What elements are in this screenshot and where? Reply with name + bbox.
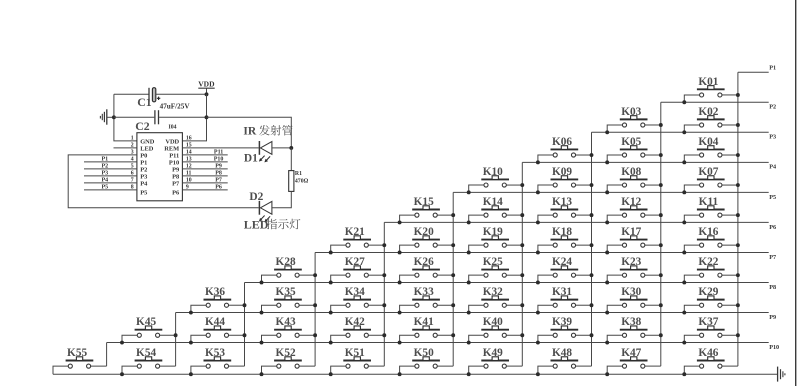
wire: [299, 365, 315, 367]
wire: [576, 154, 592, 156]
actuator bar: [697, 178, 725, 180]
wire: [538, 366, 553, 374]
actuator bar: [697, 239, 725, 241]
wire net P5 column vertical: [452, 192, 454, 366]
svg-text:K36: K36: [205, 286, 225, 298]
junction: [467, 372, 471, 376]
label LED指示灯: [244, 217, 301, 231]
label IR 发射管: [243, 125, 292, 138]
junction: [736, 273, 740, 277]
junction: [536, 341, 540, 345]
svg-text:K24: K24: [552, 256, 572, 268]
wire junction to R1: [290, 148, 292, 171]
pushbutton K17: [605, 226, 663, 254]
pushbutton K31: [536, 286, 594, 314]
svg-text:P2: P2: [101, 163, 108, 169]
pushbutton K53: [189, 347, 245, 376]
svg-text:P5: P5: [769, 194, 776, 201]
contacts: [700, 243, 704, 247]
svg-text:K06: K06: [552, 136, 572, 148]
pushbutton K30: [605, 286, 663, 314]
actuator bar: [620, 209, 648, 211]
wire net P5 row line: [453, 191, 769, 193]
actuator bar: [620, 269, 648, 271]
actuator bar: [551, 209, 579, 211]
contacts: [553, 183, 557, 187]
svg-text:K13: K13: [552, 196, 572, 208]
svg-text:K51: K51: [345, 347, 365, 359]
IC I04: [137, 125, 183, 201]
junction: [590, 153, 594, 157]
pushbutton K11: [682, 196, 740, 224]
svg-text:K29: K29: [698, 286, 718, 298]
svg-text:13: 13: [186, 157, 192, 163]
contacts: [622, 243, 626, 247]
wire: [469, 215, 484, 222]
junction: [260, 281, 264, 285]
pin 15 REM: [164, 143, 258, 153]
ground (bottom right): [778, 367, 785, 382]
wire: [331, 305, 346, 312]
contacts: [415, 303, 419, 307]
wire net P7 row line: [315, 251, 769, 253]
contacts: [622, 303, 626, 307]
svg-text:VDD: VDD: [198, 79, 215, 88]
junction: [451, 243, 455, 247]
wire: [400, 305, 415, 312]
wire net P1 column vertical: [737, 72, 739, 366]
pushbutton K08: [605, 166, 663, 194]
wire: [645, 334, 661, 336]
svg-text:15: 15: [186, 143, 192, 149]
pushbutton K32: [467, 286, 525, 314]
svg-text:K37: K37: [698, 316, 718, 328]
wire: [684, 125, 699, 132]
svg-text:K49: K49: [483, 347, 503, 359]
contacts: [622, 153, 626, 157]
actuator bar: [412, 299, 440, 301]
svg-text:K05: K05: [621, 136, 641, 148]
pushbutton K55: [53, 347, 107, 374]
wire: [400, 215, 415, 222]
svg-text:K30: K30: [621, 286, 641, 298]
contacts: [622, 273, 626, 277]
contacts: [700, 333, 704, 337]
junction: [451, 273, 455, 277]
wire: [645, 124, 661, 126]
actuator bar: [343, 239, 371, 241]
svg-text:P5: P5: [101, 184, 108, 190]
wire: [191, 335, 206, 342]
svg-text:P7: P7: [215, 177, 222, 183]
wire D1 to VDD junction: [272, 147, 291, 149]
junction: [329, 372, 333, 376]
actuator bar: [551, 360, 579, 362]
contacts: [206, 364, 210, 368]
actuator bar: [343, 329, 371, 331]
svg-text:K19: K19: [483, 226, 503, 238]
junction: [659, 273, 663, 277]
svg-text:K20: K20: [414, 226, 434, 238]
pushbutton K51: [329, 347, 385, 376]
svg-text:P7: P7: [172, 180, 180, 187]
junction: [398, 372, 402, 376]
junction: [398, 311, 402, 315]
contacts: [484, 243, 488, 247]
svg-text:P5: P5: [140, 190, 147, 197]
wire: [607, 305, 622, 312]
wire: [369, 274, 385, 276]
svg-text:P6: P6: [172, 190, 180, 197]
junction: [520, 243, 524, 247]
svg-text:K11: K11: [699, 196, 719, 208]
junction: [736, 153, 740, 157]
svg-text:P3: P3: [140, 173, 147, 180]
wire: [722, 94, 738, 96]
junction: [467, 220, 471, 224]
junction: [520, 273, 524, 277]
actuator bar: [481, 299, 509, 301]
wire: [369, 365, 385, 367]
pushbutton K28: [260, 256, 318, 284]
junction: [536, 160, 540, 164]
wire: [160, 365, 176, 367]
wire: [262, 275, 277, 282]
junction: [682, 250, 686, 254]
svg-text:K09: K09: [552, 166, 572, 178]
svg-text:47uF/25V: 47uF/25V: [160, 103, 191, 111]
junction: [605, 220, 609, 224]
svg-text:GND: GND: [140, 138, 155, 145]
wire net P10 row line: [107, 342, 769, 344]
actuator bar: [204, 360, 232, 362]
contacts: [484, 303, 488, 307]
junction: [520, 303, 524, 307]
pin 12 P9: [172, 163, 228, 173]
pushbutton K09: [536, 166, 594, 194]
junction: [536, 281, 540, 285]
contacts: [346, 273, 350, 277]
wire: [507, 365, 523, 367]
svg-text:6: 6: [131, 171, 134, 177]
pushbutton K21: [329, 226, 386, 254]
svg-text:P9: P9: [769, 314, 776, 321]
pushbutton K04: [682, 136, 740, 164]
junction: [605, 130, 609, 134]
svg-text:K27: K27: [345, 256, 365, 268]
pin 11 P8: [172, 170, 228, 180]
actuator bar: [412, 269, 440, 271]
pushbutton K35: [260, 286, 318, 314]
junction: [605, 250, 609, 254]
wire: [576, 214, 592, 216]
junction: [520, 333, 524, 337]
svg-text:P1: P1: [769, 65, 776, 72]
wire: [437, 274, 453, 276]
junction: [329, 341, 333, 345]
pushbutton K38: [605, 316, 663, 344]
pushbutton K46: [682, 347, 738, 376]
actuator bar: [551, 148, 579, 150]
svg-text:11: 11: [186, 171, 192, 177]
junction: [467, 311, 471, 315]
contacts: [137, 333, 141, 337]
svg-text:P4: P4: [101, 177, 108, 183]
actuator bar: [412, 209, 440, 211]
actuator bar: [620, 329, 648, 331]
junction: [536, 190, 540, 194]
wire: [400, 245, 415, 252]
pin 9 P6: [172, 184, 228, 196]
junction: [682, 100, 686, 104]
svg-text:K03: K03: [621, 106, 641, 118]
wire: [538, 275, 553, 282]
wire net P10 column vertical: [106, 343, 108, 367]
wire: [576, 184, 592, 186]
pushbutton K50: [398, 347, 454, 376]
svg-text:K22: K22: [698, 256, 718, 268]
pushbutton K20: [398, 226, 456, 254]
contacts: [553, 243, 557, 247]
pin 5 P2: [84, 163, 147, 173]
contacts: [206, 333, 210, 337]
pushbutton K37: [682, 316, 740, 344]
actuator bar: [204, 329, 232, 331]
wire: [722, 334, 738, 336]
contacts: [553, 333, 557, 337]
wire: [645, 304, 661, 306]
contacts: [700, 303, 704, 307]
svg-text:P7: P7: [769, 254, 776, 261]
wire VDD vertical to pin 16: [182, 94, 206, 141]
wire net P8 row line: [245, 281, 769, 283]
contacts: [700, 153, 704, 157]
actuator bar: [481, 209, 509, 211]
svg-text:K52: K52: [276, 347, 296, 359]
contacts: [553, 213, 557, 217]
svg-text:P1: P1: [140, 159, 147, 166]
actuator bar: [620, 299, 648, 301]
wire: [645, 365, 661, 367]
wire net P7 column vertical: [314, 252, 316, 366]
pin 3 P0: [131, 150, 148, 160]
pin 8 P5: [84, 184, 147, 196]
wire: [684, 215, 699, 222]
junction: [329, 311, 333, 315]
junction: [120, 341, 124, 345]
svg-text:5: 5: [131, 164, 134, 170]
junction: [682, 190, 686, 194]
contacts: [277, 364, 281, 368]
wire: [369, 244, 385, 246]
junction: [590, 303, 594, 307]
pushbutton K49: [467, 347, 523, 376]
contacts: [277, 303, 281, 307]
junction: [520, 213, 524, 217]
junction: [398, 220, 402, 224]
svg-text:K01: K01: [698, 76, 718, 88]
actuator bar: [697, 299, 725, 301]
wire C2 line right to VDD vertical: [159, 116, 206, 118]
wire: [122, 366, 137, 374]
contacts: [277, 333, 281, 337]
wire: [507, 274, 523, 276]
svg-text:VDD: VDD: [165, 138, 179, 145]
wire: [229, 304, 245, 306]
svg-text:K46: K46: [698, 347, 718, 359]
wire: [684, 245, 699, 252]
actuator bar: [343, 299, 371, 301]
junction: [605, 372, 609, 376]
svg-text:K42: K42: [345, 316, 365, 328]
pushbutton K13: [536, 196, 594, 224]
junction: [260, 311, 264, 315]
junction: [382, 243, 386, 247]
wire C2 line left: [114, 116, 154, 118]
actuator bar: [204, 299, 232, 301]
svg-text:P1: P1: [101, 156, 108, 162]
wire: [437, 244, 453, 246]
svg-text:P3: P3: [101, 170, 108, 176]
junction: [174, 333, 178, 337]
junction: [736, 93, 740, 97]
wire VDD rail to D1/R1 junction: [207, 117, 292, 148]
junction: [605, 160, 609, 164]
svg-text:K32: K32: [483, 286, 503, 298]
svg-text:P8: P8: [172, 173, 179, 180]
wire: [437, 214, 453, 216]
svg-text:P4: P4: [769, 164, 776, 171]
junction: [605, 341, 609, 345]
junction: [682, 130, 686, 134]
contacts: [553, 303, 557, 307]
actuator bar: [481, 269, 509, 271]
wire: [400, 366, 415, 374]
actuator bar: [412, 329, 440, 331]
wire: [684, 155, 699, 162]
actuator bar: [274, 269, 302, 271]
svg-text:16: 16: [186, 136, 192, 142]
svg-text:K47: K47: [621, 347, 641, 359]
junction: [590, 183, 594, 187]
svg-text:K40: K40: [483, 316, 503, 328]
junction: [605, 311, 609, 315]
contacts: [206, 303, 210, 307]
actuator bar: [481, 239, 509, 241]
junction: [536, 311, 540, 315]
junction: [682, 341, 686, 345]
junction: [536, 220, 540, 224]
wire net P9 column vertical: [175, 313, 177, 367]
pushbutton K26: [398, 256, 456, 284]
contacts: [346, 364, 350, 368]
svg-text:K10: K10: [483, 166, 503, 178]
wire net P0: pin 3 wrap to D2: [68, 155, 259, 208]
junction: [536, 250, 540, 254]
wire ground rail: [53, 373, 778, 375]
wire: [645, 184, 661, 186]
wire: [684, 275, 699, 282]
wire: [262, 305, 277, 312]
pushbutton K07: [682, 166, 740, 194]
junction: [467, 281, 471, 285]
actuator bar: [412, 360, 440, 362]
wire: [538, 185, 553, 192]
svg-text:P2: P2: [140, 166, 147, 173]
junction: [398, 281, 402, 285]
junction: [260, 372, 264, 376]
wire: [331, 366, 346, 374]
wire: [369, 334, 385, 336]
contacts: [484, 364, 488, 368]
pushbutton K19: [467, 226, 525, 254]
contacts: [553, 153, 557, 157]
junction: [313, 273, 317, 277]
contacts: [700, 123, 704, 127]
pushbutton K10: [467, 166, 525, 194]
wire: [607, 215, 622, 222]
svg-text:4: 4: [131, 157, 134, 163]
actuator bar: [274, 299, 302, 301]
wire net P4 column vertical: [521, 162, 523, 366]
wire: [331, 245, 346, 252]
svg-text:R1: R1: [295, 171, 302, 177]
junction: [189, 311, 193, 315]
wire: [91, 365, 107, 367]
contacts: [346, 243, 350, 247]
junction: [659, 303, 663, 307]
svg-text:K17: K17: [621, 226, 641, 238]
power VDD: [198, 79, 215, 94]
wire net P2 column vertical: [660, 102, 662, 366]
wire: [507, 334, 523, 336]
junction: [467, 190, 471, 194]
wire: [576, 304, 592, 306]
wire: [576, 365, 592, 367]
actuator bar: [620, 360, 648, 362]
actuator bar: [551, 329, 579, 331]
pushbutton K23: [605, 256, 663, 284]
wire net P1 row line: [738, 71, 769, 73]
contacts: [622, 333, 626, 337]
wire: [538, 335, 553, 342]
wire: [122, 335, 137, 342]
actuator bar: [620, 178, 648, 180]
actuator bar: [697, 88, 725, 90]
junction: [659, 333, 663, 337]
wire net P3 row line: [592, 131, 769, 133]
wire net P3 column vertical: [591, 132, 593, 366]
wire: [507, 184, 523, 186]
junction: [736, 303, 740, 307]
actuator bar: [697, 118, 725, 120]
wire: [507, 244, 523, 246]
svg-text:7: 7: [131, 178, 134, 184]
contacts: [622, 213, 626, 217]
wire: [722, 304, 738, 306]
contacts: [622, 183, 626, 187]
junction: [451, 213, 455, 217]
actuator bar: [481, 360, 509, 362]
svg-text:K25: K25: [483, 256, 503, 268]
wire: [607, 366, 622, 374]
actuator bar: [551, 239, 579, 241]
wire: [722, 244, 738, 246]
diode D1: [244, 141, 272, 164]
wire: [722, 365, 738, 367]
pushbutton K39: [536, 316, 594, 344]
wire: [645, 214, 661, 216]
